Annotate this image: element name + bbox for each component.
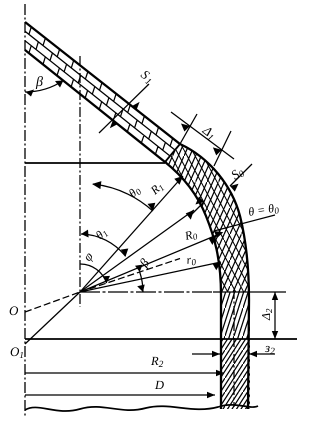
svg-text:S1: S1 bbox=[137, 67, 157, 88]
axis of symmetry (vertical dash-dot centerline) bbox=[24, 4, 26, 417]
theta1 line arrow bbox=[186, 210, 194, 220]
outer surface: cone + knuckle + cylinder bbox=[25, 22, 249, 409]
cylinder lower hatch fill bbox=[215, 339, 255, 409]
line O to V (dashed) bbox=[25, 292, 80, 312]
svg-text:r0: r0 bbox=[185, 252, 197, 268]
svg-text:S0: S0 bbox=[228, 164, 247, 185]
R1 arrow bbox=[174, 176, 183, 185]
cone hatch lattice bbox=[25, 27, 175, 156]
s2 dimension right segment bbox=[249, 353, 275, 355]
cylinder upper hatch fill bbox=[215, 288, 255, 344]
vertical dash-dot line through knuckle centre bbox=[79, 56, 81, 307]
horizontal dash-dot line through V bbox=[80, 291, 213, 293]
S1 arrows bbox=[132, 102, 140, 110]
inner surface: cone + knuckle + cylinder bbox=[25, 50, 221, 409]
theta=theta0 arrow bbox=[214, 231, 223, 238]
svg-text:θ0: θ0 bbox=[126, 183, 144, 201]
radial line R1 bbox=[80, 176, 183, 292]
svg-text:O: O bbox=[9, 303, 19, 318]
S0 dimension leader inner bbox=[190, 202, 204, 216]
beta top arc bbox=[25, 81, 63, 93]
svg-text:Δ1: Δ1 bbox=[198, 122, 219, 144]
D dimension line bbox=[25, 394, 215, 396]
svg-text:θ1: θ1 bbox=[93, 225, 111, 243]
svg-text:R0: R0 bbox=[182, 226, 199, 244]
beta mid arc arrows bbox=[135, 265, 143, 272]
R2 arrow bbox=[216, 370, 224, 376]
cylinder mid-surface dash-dot line bbox=[233, 290, 235, 407]
Delta2 arrows bbox=[272, 292, 278, 300]
radial line r0 bbox=[80, 262, 221, 292]
horizontal line at junction level bbox=[25, 162, 165, 164]
horizontal line at cylinder start level bbox=[25, 338, 297, 340]
svg-text:R1: R1 bbox=[147, 179, 167, 199]
wavy break line bbox=[25, 405, 258, 411]
r0 arrow bbox=[213, 262, 222, 270]
theta0 arc bbox=[93, 184, 153, 211]
theta1 arc arrows bbox=[81, 230, 89, 238]
R2 dimension line bbox=[25, 372, 224, 374]
C1 extension line bbox=[180, 114, 197, 144]
beta mid arc bbox=[140, 272, 143, 292]
junction line J1 (cone end cut) bbox=[165, 144, 180, 162]
D arrow bbox=[207, 392, 215, 398]
S0 arrows bbox=[230, 184, 239, 192]
svg-text:θ = θ0: θ = θ0 bbox=[247, 200, 280, 220]
line O1-V extension to inner arc (theta1 leg) bbox=[80, 210, 194, 292]
s2 dimension left segment bbox=[192, 353, 220, 355]
svg-text:R2: R2 bbox=[150, 354, 164, 370]
s2 arrows bbox=[212, 351, 220, 357]
S0 dimension leader outer bbox=[230, 164, 252, 186]
theta0 arc arrows bbox=[92, 181, 101, 189]
torus hatch fill bbox=[150, 130, 270, 300]
R0 arrow bbox=[209, 235, 218, 245]
beta top arrows bbox=[26, 90, 35, 97]
S1 dimension line bbox=[99, 84, 149, 133]
svg-text:O1: O1 bbox=[10, 344, 24, 360]
svg-text:β: β bbox=[35, 75, 43, 90]
Delta1 arrows bbox=[181, 124, 190, 132]
Delta2 dimension vertical line bbox=[274, 292, 276, 339]
svg-text:D: D bbox=[154, 378, 164, 392]
line O-V extension beyond V (dashed) bbox=[80, 259, 180, 293]
Delta1 dimension line bbox=[171, 112, 234, 159]
svg-text:з2: з2 bbox=[264, 340, 275, 357]
phi arc bbox=[81, 264, 107, 283]
arrowheads bbox=[26, 81, 279, 399]
svg-text:Δ2: Δ2 bbox=[259, 308, 274, 321]
theta1 arc bbox=[81, 234, 126, 256]
J2 extension line bbox=[214, 131, 231, 166]
phi arc arrow bbox=[103, 276, 110, 283]
svg-text:φ: φ bbox=[80, 249, 96, 264]
radial line R0 bbox=[80, 235, 217, 292]
line O1 to V bbox=[25, 292, 80, 344]
theta=theta0 leader bbox=[214, 215, 275, 231]
